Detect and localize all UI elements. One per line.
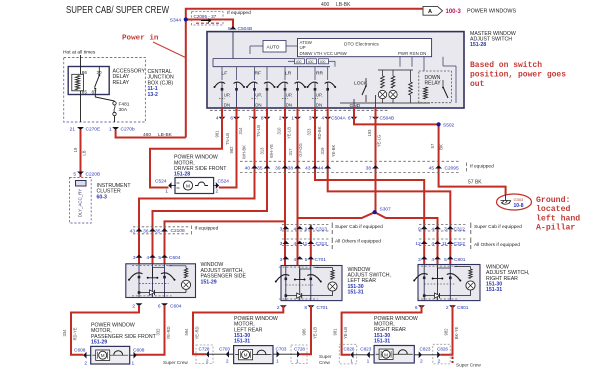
- svg-text:323: 323: [307, 128, 312, 136]
- svg-text:M: M: [186, 184, 190, 190]
- svg-text:151-28: 151-28: [470, 42, 486, 48]
- svg-text:317: 317: [288, 148, 293, 156]
- svg-text:Super Crew: Super Crew: [456, 363, 481, 368]
- svg-text:39: 39: [275, 166, 281, 172]
- svg-text:DN: DN: [224, 103, 230, 108]
- svg-text:43: 43: [305, 166, 311, 172]
- svg-text:4: 4: [321, 116, 324, 122]
- svg-text:WH-YE: WH-YE: [269, 144, 274, 158]
- svg-text:WH-BK: WH-BK: [242, 145, 247, 159]
- svg-text:YE-LG: YE-LG: [377, 135, 382, 148]
- svg-text:DN: DN: [316, 103, 322, 108]
- svg-text:310: 310: [277, 127, 282, 135]
- svg-text:13-2: 13-2: [148, 92, 158, 98]
- svg-text:2: 2: [279, 116, 282, 122]
- svg-text:5: 5: [305, 257, 308, 263]
- svg-text:3: 3: [309, 116, 312, 122]
- svg-text:DN: DN: [255, 103, 261, 108]
- svg-text:YE-RD: YE-RD: [166, 326, 171, 339]
- svg-text:DN: DN: [286, 103, 292, 108]
- svg-text:S307: S307: [380, 206, 392, 212]
- svg-text:594: 594: [184, 328, 189, 336]
- svg-text:30A: 30A: [119, 107, 128, 113]
- svg-text:DN6W VTH VCC UP6W: DN6W VTH VCC UP6W: [300, 51, 348, 56]
- svg-text:YE-LB: YE-LB: [287, 127, 292, 139]
- svg-text:BK: BK: [439, 144, 444, 150]
- svg-text:4: 4: [146, 255, 149, 261]
- svg-text:AUTO: AUTO: [267, 44, 280, 49]
- svg-text:3: 3: [280, 241, 283, 247]
- svg-text:DLY_ACC_RY: DLY_ACC_RY: [78, 189, 83, 217]
- svg-text:2: 2: [420, 359, 423, 365]
- svg-text:PWR RSN DN: PWR RSN DN: [398, 51, 426, 56]
- svg-text:36: 36: [143, 228, 149, 234]
- svg-text:A: A: [428, 9, 432, 15]
- svg-text:1: 1: [276, 359, 279, 365]
- svg-text:35: 35: [257, 166, 263, 172]
- svg-text:C524: C524: [155, 178, 167, 184]
- svg-text:Ground:: Ground:: [536, 195, 570, 205]
- svg-text:C313: C313: [316, 226, 328, 232]
- svg-text:left hand: left hand: [536, 213, 580, 223]
- svg-text:43: 43: [130, 228, 136, 234]
- svg-text:C826: C826: [344, 346, 355, 351]
- svg-text:F481: F481: [119, 102, 130, 108]
- svg-text:6: 6: [230, 116, 233, 122]
- svg-text:400: 400: [321, 2, 330, 8]
- svg-text:Super Cab if equipped: Super Cab if equipped: [335, 224, 383, 230]
- svg-text:2: 2: [446, 305, 449, 311]
- svg-text:8: 8: [261, 116, 264, 122]
- svg-text:A-pillar: A-pillar: [536, 223, 575, 233]
- svg-text:4: 4: [216, 116, 219, 122]
- svg-text:C728: C728: [294, 346, 305, 351]
- svg-text:GND: GND: [350, 103, 361, 109]
- svg-text:All Others if equipped: All Others if equipped: [335, 239, 381, 245]
- svg-text:C823: C823: [360, 346, 371, 351]
- svg-text:YE-LB: YE-LB: [343, 327, 348, 339]
- svg-text:SUPER CAB/ SUPER CREW: SUPER CAB/ SUPER CREW: [66, 5, 169, 16]
- svg-text:UP: UP: [300, 45, 306, 50]
- svg-text:400: 400: [296, 60, 302, 64]
- svg-text:87: 87: [92, 90, 98, 95]
- svg-text:38: 38: [288, 166, 294, 172]
- svg-text:C270E: C270E: [86, 127, 101, 133]
- svg-text:11: 11: [442, 241, 447, 247]
- svg-text:151-29: 151-29: [201, 279, 217, 285]
- svg-text:DTO Electronics: DTO Electronics: [344, 42, 379, 48]
- svg-text:44: 44: [318, 166, 324, 172]
- svg-text:C826: C826: [437, 346, 448, 351]
- svg-text:C312: C312: [454, 226, 466, 232]
- svg-text:C701: C701: [315, 257, 327, 263]
- svg-text:YE-LB: YE-LB: [313, 327, 318, 339]
- svg-text:1: 1: [165, 189, 168, 195]
- svg-text:M: M: [384, 352, 388, 357]
- svg-text:4: 4: [431, 241, 434, 247]
- svg-text:2: 2: [216, 189, 219, 195]
- svg-text:5: 5: [444, 257, 447, 263]
- svg-text:1: 1: [132, 360, 135, 366]
- svg-text:35: 35: [155, 228, 161, 234]
- svg-text:S344: S344: [170, 18, 182, 24]
- svg-text:151-31: 151-31: [348, 290, 364, 296]
- svg-text:19: 19: [73, 147, 78, 152]
- svg-text:2: 2: [132, 303, 135, 309]
- svg-text:C608: C608: [74, 348, 86, 354]
- svg-text:C604: C604: [170, 303, 182, 309]
- svg-text:C823: C823: [420, 346, 431, 351]
- svg-text:3: 3: [280, 226, 283, 232]
- svg-text:UP,: UP,: [255, 93, 262, 98]
- svg-text:C2095 - 37: C2095 - 37: [194, 14, 217, 19]
- svg-text:4: 4: [294, 257, 297, 263]
- svg-text:1: 1: [296, 359, 299, 365]
- svg-text:151-28: 151-28: [174, 172, 190, 178]
- svg-text:5: 5: [73, 172, 76, 178]
- svg-text:3: 3: [418, 257, 421, 263]
- svg-text:RR: RR: [316, 71, 324, 77]
- svg-text:Super Crew: Super Crew: [163, 360, 188, 365]
- svg-text:LB: LB: [82, 150, 87, 155]
- svg-text:C701: C701: [317, 305, 329, 311]
- svg-text:400: 400: [320, 60, 326, 64]
- svg-text:3: 3: [133, 255, 136, 261]
- svg-text:6: 6: [158, 303, 161, 309]
- svg-text:YE-BK: YE-BK: [331, 145, 336, 158]
- svg-text:C2095: C2095: [445, 165, 459, 171]
- svg-text:YE-RD: YE-RD: [195, 326, 200, 339]
- svg-text:C801: C801: [457, 305, 469, 311]
- svg-text:7: 7: [369, 116, 372, 122]
- svg-text:12: 12: [415, 241, 421, 247]
- svg-text:C313: C313: [316, 241, 328, 247]
- svg-text:Hot at all times: Hot at all times: [63, 50, 96, 56]
- svg-text:2: 2: [226, 359, 229, 365]
- svg-text:S502: S502: [443, 122, 455, 128]
- svg-text:If equipped: If equipped: [470, 164, 494, 170]
- svg-text:7: 7: [248, 116, 251, 122]
- svg-text:4: 4: [294, 241, 297, 247]
- svg-text:4: 4: [294, 226, 297, 232]
- svg-text:319: 319: [320, 147, 325, 155]
- svg-text:RELAY: RELAY: [113, 80, 130, 86]
- svg-text:C504A: C504A: [331, 116, 346, 122]
- svg-text:out: out: [470, 80, 485, 89]
- svg-text:UP,: UP,: [286, 93, 293, 98]
- svg-text:982: 982: [444, 328, 449, 336]
- svg-text:86: 86: [82, 70, 88, 75]
- svg-text:UP,: UP,: [316, 93, 323, 98]
- svg-text:LB-BK: LB-BK: [336, 2, 351, 8]
- svg-text:M: M: [244, 353, 248, 358]
- svg-text:21: 21: [70, 127, 76, 133]
- svg-text:C604: C604: [169, 255, 181, 261]
- svg-text:RD-BK: RD-BK: [317, 126, 322, 139]
- svg-text:151-31: 151-31: [374, 339, 390, 345]
- svg-text:C220B: C220B: [86, 172, 101, 178]
- svg-text:TN-LB: TN-LB: [225, 133, 230, 145]
- svg-text:332: 332: [156, 328, 161, 336]
- svg-text:C312: C312: [454, 241, 466, 247]
- svg-text:11: 11: [302, 241, 307, 247]
- svg-text:193: 193: [367, 129, 372, 137]
- svg-text:M: M: [101, 353, 105, 358]
- svg-text:3: 3: [280, 257, 283, 263]
- svg-text:Super: Super: [319, 354, 332, 359]
- svg-text:C801: C801: [454, 257, 466, 263]
- svg-text:TN-LB: TN-LB: [256, 125, 261, 137]
- svg-text:All Others if equipped: All Others if equipped: [474, 242, 520, 248]
- svg-text:Crew: Crew: [319, 360, 331, 365]
- svg-text:1: 1: [109, 127, 112, 133]
- svg-text:RD-YE: RD-YE: [73, 327, 78, 340]
- svg-text:Super Cab if equipped: Super Cab if equipped: [474, 224, 522, 230]
- svg-text:100-3: 100-3: [446, 9, 462, 15]
- svg-text:1: 1: [367, 359, 370, 365]
- svg-text:38: 38: [366, 166, 372, 172]
- svg-text:Based on switch: Based on switch: [470, 61, 542, 70]
- svg-text:LF: LF: [222, 71, 228, 77]
- svg-text:C608: C608: [133, 348, 145, 354]
- svg-text:RELAY: RELAY: [425, 81, 442, 87]
- svg-text:located: located: [536, 204, 570, 214]
- svg-text:986: 986: [302, 328, 307, 336]
- svg-text:85: 85: [82, 90, 88, 95]
- svg-text:10-8: 10-8: [514, 203, 524, 209]
- svg-text:5: 5: [158, 255, 161, 261]
- svg-text:313: 313: [260, 147, 265, 155]
- svg-text:4: 4: [431, 257, 434, 263]
- svg-text:981: 981: [215, 130, 220, 138]
- svg-text:6: 6: [415, 305, 418, 311]
- svg-text:45: 45: [429, 166, 435, 172]
- svg-text:57 BK: 57 BK: [468, 179, 482, 185]
- svg-text:UP,: UP,: [224, 93, 231, 98]
- svg-text:POWER WINDOWS: POWER WINDOWS: [467, 8, 517, 14]
- svg-text:LR: LR: [285, 71, 292, 77]
- svg-text:BK-YE: BK-YE: [454, 327, 459, 340]
- svg-text:6: 6: [348, 116, 351, 122]
- svg-text:40: 40: [245, 166, 251, 172]
- svg-text:2: 2: [438, 359, 441, 365]
- svg-text:3: 3: [444, 226, 447, 232]
- svg-text:151-31: 151-31: [486, 287, 502, 293]
- svg-text:2: 2: [206, 359, 209, 365]
- svg-text:C270b: C270b: [121, 127, 135, 133]
- svg-text:9: 9: [418, 226, 421, 232]
- svg-text:C728: C728: [199, 346, 210, 351]
- svg-text:C703: C703: [219, 346, 230, 351]
- svg-text:C524: C524: [218, 178, 230, 184]
- svg-text:If equipped: If equipped: [195, 225, 219, 231]
- svg-text:57: 57: [430, 143, 435, 148]
- svg-text:334: 334: [62, 329, 67, 337]
- svg-text:151-29: 151-29: [91, 340, 107, 346]
- svg-text:If equipped: If equipped: [227, 10, 251, 16]
- svg-text:982: 982: [229, 146, 234, 154]
- svg-text:8: 8: [304, 305, 307, 311]
- svg-text:GY-OG: GY-OG: [298, 143, 303, 157]
- svg-text:Power in: Power in: [122, 35, 159, 43]
- svg-text:1: 1: [291, 116, 294, 122]
- svg-text:151-31: 151-31: [234, 339, 250, 345]
- svg-text:981: 981: [333, 328, 338, 336]
- svg-text:C2108: C2108: [171, 228, 185, 234]
- svg-text:4: 4: [431, 226, 434, 232]
- svg-text:C504B: C504B: [380, 116, 395, 122]
- svg-text:position, power goes: position, power goes: [470, 71, 566, 80]
- svg-text:60-3: 60-3: [97, 194, 107, 200]
- svg-text:400: 400: [308, 60, 314, 64]
- svg-text:9: 9: [305, 226, 308, 232]
- svg-text:1: 1: [350, 359, 353, 365]
- svg-text:RF: RF: [255, 71, 262, 77]
- svg-text:C703: C703: [276, 346, 287, 351]
- svg-text:314: 314: [238, 127, 243, 135]
- svg-text:G303: G303: [514, 197, 525, 202]
- svg-text:2: 2: [277, 305, 280, 311]
- svg-text:2: 2: [84, 360, 87, 366]
